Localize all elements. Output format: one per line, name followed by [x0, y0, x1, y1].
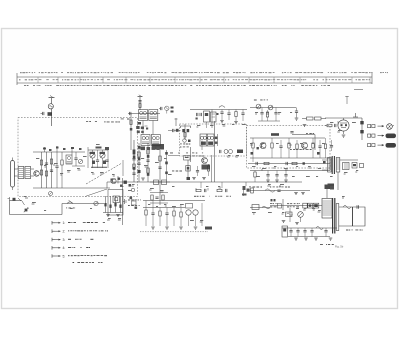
gang hatch b: [100, 152, 106, 154]
resistor R8: [147, 149, 149, 154]
label pu 1: [128, 200, 130, 201]
selector contacts: [104, 203, 106, 206]
wire det rail b: [143, 207, 185, 209]
arrow row3: [378, 144, 385, 146]
capacitor C31: [266, 174, 269, 176]
wire diag link: [85, 189, 107, 197]
label ps loop: [346, 230, 349, 231]
wire left if column: [130, 114, 132, 151]
wire selector bottom: [103, 212, 123, 214]
capacitor C46: [296, 230, 299, 232]
capacitor C3: [50, 169, 53, 171]
selector block: [105, 196, 107, 213]
wire rf bottom rail: [33, 187, 110, 189]
speaker socket a: [343, 163, 350, 170]
output transformer secondary: [336, 158, 340, 173]
gnd tube: [342, 134, 346, 136]
tube top tick: [346, 96, 348, 104]
gnd det row: [151, 226, 155, 228]
resistor R21: [296, 144, 298, 149]
aerial coil winding a: [18, 167, 24, 179]
capacitor C15: [129, 112, 131, 115]
resistor R1: [40, 160, 42, 165]
capacitor C19: [219, 150, 221, 153]
transistor T6: [302, 143, 308, 149]
capacitor C1: [42, 112, 44, 115]
if component d1: [154, 180, 159, 185]
gnd selector a: [106, 214, 110, 216]
arrow row1: [378, 125, 385, 127]
node af: [303, 162, 305, 164]
heater line: [352, 207, 354, 226]
wire if vertical main: [214, 121, 216, 182]
transformer top cluster: [325, 185, 330, 190]
wire ps loop: [339, 207, 365, 226]
wire rf column b: [46, 152, 48, 188]
label af low: [249, 186, 251, 189]
fig annotation right: [320, 243, 323, 246]
gnd b+ a: [294, 192, 298, 194]
wire rf2 right: [302, 118, 307, 120]
wire mains vert: [282, 199, 284, 210]
volume feed parts: [151, 195, 153, 200]
wire gang stub: [107, 150, 109, 168]
tube V1: [338, 120, 349, 131]
dial scale strip bottom rule: [17, 82, 372, 84]
gang bits: [96, 147, 102, 149]
dial scale lower label row: [24, 84, 26, 87]
node gang: [91, 166, 107, 169]
connector blob a: [360, 121, 363, 124]
gnd t4 a: [192, 177, 196, 179]
wire osc down: [190, 147, 192, 162]
trimmer C6: [78, 159, 82, 163]
dial scale end ticks: [16, 73, 18, 85]
right box extras: [324, 144, 326, 149]
resistor R25: [254, 172, 256, 177]
audio edge cluster: [243, 186, 246, 190]
resistor R35: [316, 227, 323, 230]
resistor R15: [266, 112, 268, 117]
resistor R26: [327, 124, 332, 127]
module right parts: [129, 184, 132, 187]
component det sq: [186, 204, 193, 209]
capacitor C48: [310, 230, 313, 232]
capacitor C49: [324, 230, 327, 232]
gang hatch a: [90, 152, 96, 154]
gnd rect a: [282, 220, 286, 222]
variable capacitor C8: [100, 153, 105, 158]
resistor R27: [265, 189, 275, 192]
t4 knot: [202, 165, 211, 170]
coupling cluster node: [48, 112, 53, 116]
if component d2: [162, 180, 167, 185]
component det tail: [205, 227, 212, 230]
wire antenna down: [51, 109, 53, 126]
strip stub mark: [354, 89, 363, 91]
socket pins row1: [368, 125, 371, 128]
node osc: [176, 129, 179, 132]
capacitor C43: [165, 212, 168, 214]
trimmer C22: [268, 105, 273, 110]
osc text block: [180, 143, 182, 146]
capacitor C4: [55, 165, 58, 167]
gnd bank d: [329, 237, 333, 239]
transistor T7: [186, 210, 191, 215]
wire tube rail: [325, 117, 362, 119]
agc rc pair 1: [196, 189, 201, 191]
component lb1: [252, 205, 259, 210]
label if1: [121, 118, 124, 121]
svg-text:4:: 4:: [63, 246, 66, 250]
capacitor C11: [137, 162, 140, 164]
transistor T1: [34, 171, 40, 177]
wire main bus: [107, 181, 302, 183]
gnd osc: [187, 177, 191, 180]
svg-text:1:: 1:: [63, 221, 66, 225]
socket pins row3: [368, 144, 371, 147]
choke L4: [271, 133, 279, 136]
pickup pot VR4: [94, 201, 98, 205]
gnd bank b: [304, 237, 308, 239]
mains switch: [10, 200, 23, 202]
mixer box right: [211, 112, 217, 122]
capacitor C35: [334, 124, 336, 127]
switch ticks: [9, 197, 11, 201]
text mid label: [86, 120, 88, 123]
cap bank rail top: [282, 227, 337, 229]
mixer circle M1: [165, 106, 169, 110]
oscillator lid bracket: [181, 126, 191, 128]
capacitor C12: [146, 159, 149, 161]
wire bus drop left: [106, 182, 108, 188]
gnd rf2: [295, 117, 299, 119]
capacitor C9: [132, 158, 135, 160]
svg-text:2:: 2:: [63, 230, 66, 234]
speaker socket c: [360, 164, 364, 168]
gnd b+ b: [301, 192, 305, 194]
capacitor C45: [289, 230, 292, 232]
switch box dark: [313, 203, 319, 208]
wire aerial links: [14, 168, 18, 170]
fuse box b: [308, 203, 312, 208]
wire bottom rise: [61, 204, 63, 215]
cap bank rail bottom: [288, 236, 330, 238]
if2 side parts: [215, 137, 218, 140]
output transformer core: [331, 156, 333, 174]
wire sw down: [9, 201, 11, 215]
electrolytic C44: [282, 226, 288, 237]
IF transformer S1: [139, 110, 148, 121]
component c34: [277, 189, 280, 191]
resistor R9: [147, 168, 149, 173]
resistor R5: [61, 160, 63, 165]
resistor R19: [271, 143, 273, 148]
capacitor C26: [290, 131, 293, 133]
wire af lower rail: [248, 163, 330, 165]
legend row 4: [52, 247, 55, 249]
plug P3: [386, 143, 397, 148]
label agc: [170, 152, 173, 155]
dashed AF amplifier box: [247, 126, 331, 169]
wire audio B+ rail: [250, 190, 310, 192]
label rf2: [254, 100, 257, 101]
choke L3: [133, 150, 136, 155]
coil L1: [48, 104, 53, 109]
wire gang rail: [88, 149, 108, 151]
osc tick: [175, 118, 177, 126]
IF transformer S5: [200, 134, 207, 146]
label osc text: [192, 152, 194, 155]
osc box label: [184, 156, 191, 161]
mains transformer core: [332, 198, 334, 234]
trimmer caps: [96, 159, 99, 161]
wire gang drop a: [97, 150, 99, 160]
mid column extra blobs: [133, 156, 136, 159]
capacitor C14: [138, 100, 141, 102]
wire if2 row: [190, 109, 247, 111]
capacitor C27: [279, 145, 282, 147]
agc rc pair 2: [217, 189, 222, 191]
capacitor C30: [285, 162, 287, 165]
wire module vertical: [122, 178, 124, 225]
if bottom dark cluster: [141, 147, 146, 151]
transistor T4: [202, 158, 208, 164]
wire if2 drop a: [211, 110, 213, 129]
pickup jack: [124, 199, 126, 204]
resistor R11: [139, 104, 141, 108]
svg-text:Fig. 5b: Fig. 5b: [335, 245, 344, 249]
aerial coil winding b: [25, 167, 31, 179]
wire det drops: [188, 215, 190, 226]
IF transformer S2: [149, 110, 158, 121]
wire ot left stub: [322, 159, 328, 161]
mains text block 1: [270, 202, 272, 205]
gnd bank a: [294, 237, 298, 239]
wire osc stem: [187, 160, 189, 177]
resistor R13: [235, 112, 237, 117]
mixer coil L2: [66, 155, 72, 164]
osc coupling dark cluster: [136, 126, 139, 129]
resistor R4: [50, 159, 52, 164]
detector diode cluster: [152, 144, 164, 150]
resistor R10: [159, 156, 161, 161]
node mid: [138, 170, 141, 173]
capacitor C42: [151, 212, 154, 214]
capacitor C36: [330, 145, 333, 147]
wire bottom run2: [62, 203, 104, 205]
wire osc link: [72, 165, 85, 167]
gnd t4 b: [202, 177, 206, 179]
rectifier comp: [286, 212, 293, 217]
resistor R24: [292, 162, 297, 164]
capacitor C16: [220, 111, 223, 113]
gnd bank c: [314, 237, 318, 239]
wire if inter: [142, 121, 144, 135]
capacitor C37: [356, 205, 358, 209]
label pu 2: [128, 205, 130, 206]
capacitor C24: [274, 112, 277, 114]
wire rf2 gnd rail: [258, 120, 280, 122]
oscillator parts: [182, 129, 185, 132]
capacitor C32: [275, 174, 278, 176]
label af box: [290, 148, 292, 151]
wire mid column c: [147, 143, 149, 182]
dashed tuner box: [18, 118, 138, 197]
IF transformer S4: [151, 135, 160, 146]
resistor R18: [252, 143, 254, 148]
resistor bump R12: [219, 106, 225, 108]
antenna AE2: [139, 97, 141, 110]
resistor R6: [133, 164, 135, 169]
det column extra: [166, 150, 168, 180]
dial scale upper label row: [20, 72, 22, 73]
wire rf column a: [41, 152, 43, 188]
svg-text:3:: 3:: [63, 238, 66, 242]
gnd selector b: [116, 214, 120, 216]
wire tube right vert: [361, 118, 363, 140]
capacitor C47: [303, 230, 306, 232]
resistor R16: [307, 117, 314, 120]
wire shield feed: [117, 176, 119, 184]
legend row 3: [52, 239, 55, 241]
legend row 5: [52, 255, 55, 257]
label if2: [104, 121, 106, 124]
capacitor C50: [160, 107, 162, 110]
mixer caps left: [196, 113, 198, 116]
mains rail: [270, 205, 322, 207]
resistor R28: [343, 206, 351, 209]
oscillator transistor T2: [111, 178, 116, 183]
wire det rail a: [143, 200, 205, 202]
wire if vertical b: [201, 141, 203, 151]
svg-text:5:: 5:: [63, 254, 66, 258]
legend row 5 cont: [73, 262, 75, 263]
capacitor C33: [284, 174, 287, 176]
resistor R23: [264, 162, 269, 164]
dial scale middle label row: [19, 79, 21, 80]
gnd rf3: [303, 124, 307, 126]
IF transformer S6: [207, 134, 214, 146]
wire tube stub: [325, 125, 327, 127]
wire rf column c: [51, 152, 53, 188]
capacitor C10: [132, 172, 135, 174]
rf top bits: [43, 148, 46, 150]
resistor R30: [159, 211, 161, 216]
aerial coupling T sym: [353, 116, 358, 118]
wire rf2 rail: [250, 107, 296, 109]
wire agc stub: [168, 155, 180, 157]
variable capacitor C7: [90, 153, 95, 158]
resistor R22: [312, 143, 314, 148]
choke L5: [328, 184, 335, 190]
tone pot VR3: [67, 202, 73, 204]
capacitor C2: [45, 162, 48, 164]
speaker socket b: [352, 163, 357, 169]
capacitor C25: [295, 110, 298, 112]
component lb2: [262, 206, 270, 209]
resistor R33: [184, 133, 186, 138]
fuse box a: [303, 203, 307, 208]
wire det column: [159, 150, 161, 205]
dashed det baseline: [140, 231, 208, 233]
shield box: [108, 190, 123, 216]
value labels scatter: [36, 157, 39, 160]
legend row 1: [52, 222, 55, 224]
resistor R29: [145, 210, 147, 215]
wire af mid rail: [250, 157, 330, 159]
connector blob b: [360, 130, 363, 133]
plug P2: [386, 134, 397, 139]
wire bottom run: [10, 214, 63, 216]
resistor R20: [288, 143, 290, 148]
socket pins row2: [368, 134, 371, 137]
legend row 2: [52, 230, 55, 232]
wire det links: [150, 181, 170, 183]
crystal X1: [113, 196, 120, 203]
resistor R31: [173, 211, 175, 216]
rectifier D3: [298, 212, 304, 218]
resistor R32: [180, 212, 182, 217]
wire ot drop: [337, 172, 339, 190]
capacitor C20: [196, 170, 199, 172]
mains comp a: [278, 204, 282, 208]
capacitor C5: [74, 157, 77, 159]
gnd mid: [141, 177, 145, 179]
arrow row2: [378, 135, 385, 137]
resistor R14: [207, 166, 209, 171]
mixer bits: [171, 107, 174, 109]
transistor can T3: [204, 111, 210, 122]
mains transformer secondary: [336, 204, 339, 231]
resistor R2: [40, 170, 42, 175]
capacitor C13: [158, 166, 161, 168]
dial scale strip top rule: [17, 76, 372, 78]
mains transformer primary: [322, 199, 332, 219]
antenna AE1: [51, 98, 53, 104]
capacitor C29: [255, 162, 257, 165]
component on left column: [130, 120, 132, 125]
wire mid column a: [133, 140, 135, 182]
capacitor C17: [227, 112, 230, 114]
osc circle: [183, 139, 187, 143]
wire rf top rail: [33, 151, 85, 153]
resistor R34: [186, 166, 190, 172]
capacitor C28: [318, 145, 321, 147]
wire if top rail: [128, 113, 160, 115]
wire lower bus: [250, 207, 270, 209]
transistor T8: [193, 210, 198, 215]
capacitor C18: [241, 112, 244, 114]
wire mid column b: [138, 143, 140, 182]
diode D1: [237, 150, 243, 154]
gnd rect b: [295, 222, 299, 224]
resistor R3: [45, 171, 47, 176]
mains text block 2: [287, 202, 289, 205]
capacitor C51: [172, 129, 174, 132]
volume pot VR2: [22, 201, 25, 205]
tuning gang diagonal: [86, 163, 122, 184]
wire af rail3: [250, 170, 330, 172]
resistor R7: [138, 152, 140, 157]
resistor R17: [315, 117, 322, 120]
frame aerial rod: [11, 161, 15, 188]
wire if vertical pair: [211, 155, 213, 182]
component vr1: [251, 188, 254, 193]
capacitor C23: [260, 112, 263, 114]
transistor T5: [260, 143, 266, 149]
wire ot top: [340, 159, 358, 161]
